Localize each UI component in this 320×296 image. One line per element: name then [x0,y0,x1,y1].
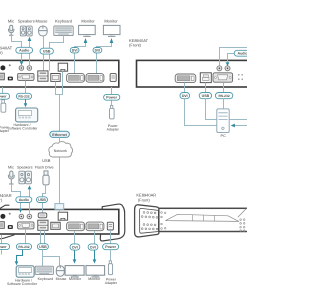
wire front RS-232 to pill [223,82,225,92]
svg-text:Power: Power [0,245,7,249]
svg-text:RS-232: RS-232 [18,95,29,99]
pill RS-232 front [215,93,232,99]
arrow into audio-in jack [20,61,24,65]
svg-text:RS-232: RS-232 [18,245,29,249]
power adapter barrel right [110,105,115,119]
wire Power pill bottom to adapter [110,250,112,264]
wire flash drive to USB port [43,185,46,213]
wire audio-out jack to speakers bottom [29,189,31,213]
arrow into monitor 2 [110,38,114,43]
port USB hub (2 stacked USB-A) [38,71,48,81]
device KE8940AT front panel box [137,60,253,87]
arrow DVI1 to monitor 1 bottom [74,250,76,259]
pill USB bottom lower [37,244,48,250]
svg-text:(Rear): (Rear) [0,50,3,55]
ethernet cable plug [55,204,64,210]
port DVI in 2 bottom [86,222,104,231]
wire Audio pill to audio-in jack [228,54,235,63]
svg-text:Ethernet: Ethernet [52,133,67,137]
vent holes end-cap [141,212,158,231]
pill DVI 1 [70,48,79,53]
icon monitor 1 [79,25,96,36]
bracket ear top-left of receiver [0,205,9,208]
svg-text:Mic: Mic [8,165,14,169]
icon mouse [39,26,48,36]
pill Audio bottom [16,197,32,203]
network cloud [49,142,73,157]
port front USB-B [200,73,211,83]
wire SFP to ethernet junction [56,71,63,94]
arrow RS-232 bottom to controller [17,250,23,262]
svg-text:Mic: Mic [8,19,14,24]
pill Power right bottom [103,244,119,250]
svg-text:Keyboard: Keyboard [55,19,72,24]
svg-text:USB: USB [42,158,51,163]
svg-text:Audio: Audio [238,52,247,56]
wire DB9 bottom to RS-232 pill [25,229,27,244]
svg-text:(Front): (Front) [129,43,142,48]
port LAN RJ45 bottom [58,212,67,220]
pill USB bottom upper [37,197,48,203]
svg-text:Network: Network [54,149,67,153]
port DC jack right bottom [107,222,113,230]
wire DC jack bottom to Power pill [110,230,112,244]
svg-text:DVI: DVI [90,246,96,250]
port LAN RJ45 [58,63,67,71]
pill DVI 2 [93,48,102,53]
pill DVI bottom 1 [70,244,80,250]
port DVI out 1 [67,74,85,83]
svg-text:Adapter: Adapter [107,127,120,131]
wire junction to Ethernet pill [59,95,61,132]
svg-text:Monitor: Monitor [104,19,118,24]
svg-text:Speakers: Speakers [17,165,33,169]
port audio jack R bottom [27,214,32,219]
icon monitor 1 bottom [65,266,84,277]
svg-text:USB: USB [202,94,210,98]
svg-text:Software Controller: Software Controller [8,127,39,131]
pill USB [40,48,53,54]
svg-text:Software Controller: Software Controller [7,282,38,286]
power adapter barrel left [1,100,6,112]
device KE8940AT rear panel box [0,60,119,87]
svg-text:Mouse: Mouse [35,19,48,24]
wire USB pill branch to mouse [43,257,60,266]
wire audio-out jack to speakers [29,41,31,65]
pill RS-232 bottom [16,244,31,250]
wire plug to RJ45 bottom [59,209,61,212]
port power button [0,65,5,70]
vent holes right end [240,219,245,232]
svg-text:RS-232: RS-232 [219,94,230,98]
svg-text:DVI: DVI [72,246,78,250]
svg-text:USB: USB [38,198,46,202]
wire DVI2 bottom to pill [94,231,96,244]
arrow into speakers [28,37,32,41]
panel corner seam right [238,208,247,217]
port DC jack right [110,74,116,82]
pill USB front [199,93,211,99]
icon monitor 2 bottom [86,266,105,277]
wire right edge to PC lower with arrow [235,125,247,127]
icon microphone [9,25,14,35]
bracket ear bottom-left of receiver [0,235,14,239]
arrow RS-232 pill to controller [25,99,27,103]
svg-text:Mouse: Mouse [56,277,67,281]
port front audio jack R [225,66,230,71]
pill Audio front (cut at right) [234,50,251,56]
svg-text:Adapter: Adapter [105,281,118,285]
bracket end-cap left (3D) [135,205,159,237]
port audio jack L [19,66,24,71]
wire DVI port 2 to monitor 2 [97,43,112,74]
svg-text:Speakers: Speakers [18,19,35,24]
port USB peripheral (flat) [38,213,47,218]
pill Power left (cut) [0,93,10,99]
port indicator diamond bottom [9,213,11,215]
port SFP fiber bottom [51,222,60,229]
port RS-232 DB9 [18,73,34,80]
port RS-232 DB9 bottom [18,222,34,229]
svg-text:Flash Drive: Flash Drive [35,165,54,169]
port AC power inlet [0,73,4,80]
icon speakers bottom [19,171,32,184]
port DVI out 2 [86,74,104,83]
svg-text:Monitor: Monitor [81,19,95,24]
device Hardware/Software Controller bottom [16,266,34,277]
svg-text:Keyboard: Keyboard [38,277,53,281]
wire RS-232 pill to PC top [223,99,225,109]
port DC connector bottom [8,225,13,229]
svg-text:Audio: Audio [19,49,30,53]
svg-text:USB: USB [39,245,47,249]
icon microphone bottom [8,171,14,184]
svg-text:DVI: DVI [95,49,101,53]
wire USB pill to PC [206,99,217,120]
computer PC tower [217,109,229,133]
wire AC inlet to power adapter left [2,87,4,100]
svg-text:(Rear): (Rear) [0,198,3,203]
wire network cloud to receiver [59,157,61,203]
svg-text:Monitor: Monitor [69,277,82,281]
pill Ethernet [50,131,70,137]
arrow into rear audio-in jack [19,209,23,213]
wire audio-out jack to edge [220,48,248,66]
port audio jack R [27,66,32,71]
port power button bottom [0,214,5,219]
port front RS-232 DB9 [213,73,233,82]
icon monitor 2 [103,25,120,36]
icon USB flash drive [43,171,49,185]
icon speakers [20,26,32,36]
svg-text:(Front): (Front) [138,197,151,202]
svg-text:Power: Power [106,96,117,100]
port audio jack L bottom [19,214,24,219]
wire Ethernet pill to network cloud [59,137,61,142]
port DVI in 1 bottom [67,222,85,231]
pill DVI front [180,93,190,99]
device KE8940AR rear panel box [0,209,119,234]
wire DVI port 1 to monitor 1 [75,43,86,74]
port USB hub bottom (2 stacked USB-A) [38,220,48,230]
device KE8940AR front slab body [157,208,248,231]
arrow DVI2 to monitor 2 bottom [94,250,96,259]
port DC connector [8,77,13,81]
wire mic to audio-in jack [12,36,22,64]
wire DVI1 bottom to pill [74,231,76,244]
port indicator diamond [9,64,11,66]
arrow into front audio jack [226,62,230,66]
svg-text:USB: USB [43,50,51,54]
band divider ticks [192,215,214,221]
wire front USB to pill [205,83,207,93]
svg-text:Audio: Audio [19,198,30,202]
icon keyboard [54,26,73,36]
arrow into PC right side [231,124,235,128]
pill Audio [16,47,33,53]
port SFP fiber [51,74,60,82]
wire USB hub to USB pill (two lines) [41,230,45,244]
wire mouse to USB port [43,36,45,71]
wire DVI pill to PC [185,99,217,126]
device Hardware/Software Controller top [16,108,38,122]
arrow into speakers bottom [28,185,32,189]
svg-text:Power: Power [105,245,116,249]
port front audio jack L [217,66,222,71]
icon keyboard bottom [35,266,53,274]
power adapter barrel bottom [108,261,112,275]
icon mouse bottom [56,266,64,277]
svg-text:DVI: DVI [72,49,78,53]
svg-text:DVI: DVI [182,94,188,98]
arrow into monitor 1 [84,38,88,43]
wire AC inlet bottom to below [1,235,3,255]
port AC power inlet bottom [0,222,4,229]
pill DVI bottom 2 [88,244,98,250]
wire DC jack right to power adapter right [111,87,113,105]
wire right edge to PC upper [229,119,247,121]
pill Power left bottom (cut) [0,244,10,250]
end-cap inner face [140,208,159,233]
front recessed panel band [166,214,240,221]
wire keyboard to USB port [50,36,64,71]
wire front DVI to pill [184,83,186,93]
LED indicators [238,74,243,80]
bracket flange right of receiver [100,204,125,241]
svg-text:PC: PC [221,134,227,138]
wire DB9 to RS-232 pill [25,81,27,94]
vent holes left of body [161,212,166,230]
svg-text:Monitor: Monitor [88,277,101,281]
svg-text:Power: Power [0,95,7,99]
port front DVI [175,74,196,83]
pill RS-232 top [16,93,31,99]
pill Power right [104,94,120,100]
wire USB pill to keyboard [42,250,44,266]
wire mic bottom to audio-in jack [12,185,21,209]
